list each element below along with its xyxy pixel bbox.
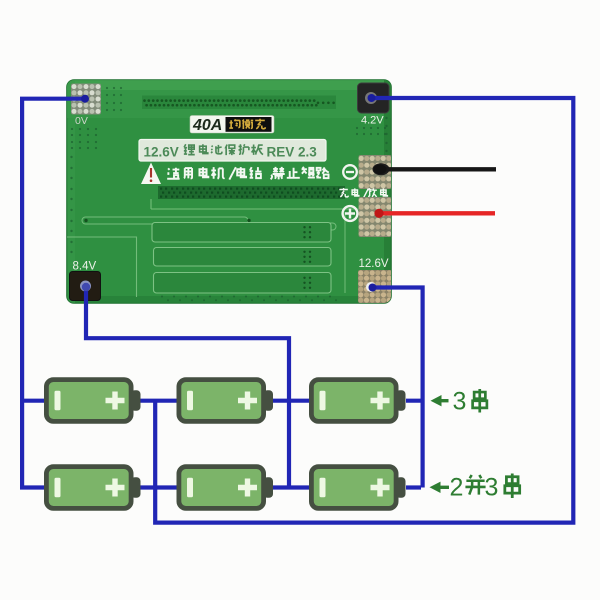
wire 8.4V net: pad 8.4V down, right, down through junctions xyxy=(86,287,289,488)
wire B4+ to B5- xyxy=(140,485,177,489)
via dots scattered xyxy=(63,87,388,301)
wire discharge plus (red) xyxy=(377,211,495,215)
copper region boundary (left block) xyxy=(67,237,137,297)
warning text: 适用电机/电钻，禁止短路 xyxy=(167,168,179,179)
svg-text:4.2V: 4.2V xyxy=(361,115,384,127)
terminal B+ (circle-plus symbol) xyxy=(343,206,358,221)
svg-text:REV 2.3: REV 2.3 xyxy=(267,145,318,160)
silkscreen title: 12.6V 锂电池保护板 REV 2.3 xyxy=(139,140,326,162)
solder joint at 4.2V pad xyxy=(368,94,376,102)
copper strip B xyxy=(154,248,332,267)
svg-text:0V: 0V xyxy=(75,115,88,127)
40A rating label xyxy=(190,116,274,134)
wire B1+ to B2- xyxy=(140,399,177,403)
svg-text:2: 2 xyxy=(450,474,464,502)
pad C- charge/discharge minus xyxy=(359,155,392,189)
copper strip C xyxy=(154,273,332,294)
wire 0V net: pad 0V to minus of B1/B4 xyxy=(22,99,87,488)
label 充电/放电 xyxy=(339,188,348,197)
svg-text:12.6V: 12.6V xyxy=(359,258,389,270)
arrow annotation 2并3串 (2 parallel 3 series) xyxy=(430,482,450,493)
svg-text:8.4V: 8.4V xyxy=(73,261,97,273)
wire discharge minus (black) xyxy=(376,167,496,171)
PCB board U1 (3S 40A BMS protection board) xyxy=(63,80,392,303)
pad C+ charge/discharge plus xyxy=(359,197,392,237)
copper strip A xyxy=(152,223,331,243)
wire B3+ to 12.6V net xyxy=(406,399,423,403)
solder joint at 8.4V pad xyxy=(82,283,90,291)
terminal B- (circle-minus symbol) xyxy=(343,165,357,179)
arrow annotation 3串 (3 series) xyxy=(431,395,449,406)
warning triangle xyxy=(141,163,161,185)
battery cell B2 xyxy=(179,380,273,422)
svg-text:3: 3 xyxy=(485,474,499,502)
svg-text:12.6V: 12.6V xyxy=(144,145,179,160)
battery cell B1 xyxy=(46,380,140,422)
thin trace xyxy=(82,217,248,224)
battery cell B6 xyxy=(311,467,405,509)
svg-text:3: 3 xyxy=(453,388,467,416)
wire branch to B1 minus xyxy=(22,399,45,403)
through-hole row (balance wire pads) xyxy=(142,96,336,110)
wire B2+ to B3- xyxy=(273,399,310,403)
wire B6+ to 12.6V net xyxy=(406,485,421,489)
battery cell B3 xyxy=(311,380,405,422)
svg-text:40A: 40A xyxy=(192,117,222,134)
battery cell B4 xyxy=(46,467,140,509)
solder joint at 0V pad xyxy=(81,95,89,103)
wire 4.2V net: pad 4.2V right, down, bottom, up to cell1/cell2 junctions xyxy=(155,98,573,523)
battery cell B5 xyxy=(179,467,273,509)
pad B1+ 4.2V (top-right, soldered black) xyxy=(358,83,390,113)
wire B5+ to B6- xyxy=(273,485,310,489)
solder joint at 12.6V pad xyxy=(369,284,377,292)
tinned copper strip xyxy=(158,186,345,199)
均衡充 black label xyxy=(226,117,272,132)
copper pour boundary xyxy=(151,199,388,209)
pad P- 0V (top-left solder pad) xyxy=(71,84,101,115)
wire 12.6V net: pad 12.6V right, down to plus of B3/B6 xyxy=(373,288,423,488)
